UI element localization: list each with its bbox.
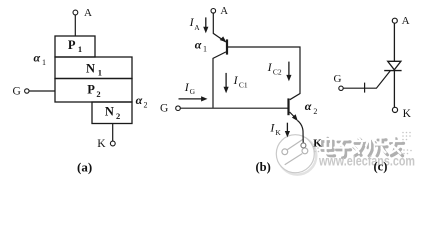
- wire G to thyristor gate: [343, 71, 390, 88]
- svg-text:A: A: [220, 6, 228, 17]
- svg-text:α: α: [34, 51, 41, 65]
- terminal A (a): [73, 7, 92, 19]
- transistor Q2 base bar: [287, 98, 289, 115]
- terminal A (b): [211, 6, 228, 17]
- transistor Q1 base bar: [226, 39, 228, 54]
- svg-text:K: K: [97, 138, 106, 150]
- svg-text:α: α: [136, 93, 143, 107]
- wire thyristor to K: [393, 71, 395, 108]
- layer P2: [55, 79, 132, 103]
- watermark logo link lines: [285, 139, 303, 164]
- watermark text dianzifashaoyou: [320, 136, 402, 156]
- svg-text:A: A: [402, 15, 410, 27]
- wire G to Q2 base: [180, 107, 288, 109]
- svg-text:P: P: [68, 38, 76, 52]
- svg-text:www.elecfans.com: www.elecfans.com: [318, 154, 415, 169]
- svg-text:A: A: [194, 23, 200, 32]
- watermark logo circle: [276, 135, 314, 173]
- terminal K (c): [392, 107, 411, 120]
- terminal G (c): [334, 73, 344, 91]
- svg-text:N: N: [105, 105, 114, 119]
- wire N2 to K: [112, 124, 114, 142]
- wire Q1 collector to junction: [213, 52, 226, 108]
- terminal G (a): [13, 85, 29, 97]
- label IC1: [224, 73, 248, 93]
- svg-text:2: 2: [96, 89, 100, 99]
- caption (b): [256, 160, 271, 174]
- label alpha1 (b): [195, 38, 207, 54]
- svg-text:2: 2: [116, 111, 120, 121]
- svg-text:1: 1: [78, 44, 82, 54]
- svg-text:A: A: [84, 7, 92, 19]
- svg-text:α: α: [195, 38, 202, 52]
- label IG: [179, 80, 208, 102]
- label IA: [189, 15, 209, 33]
- svg-text:I: I: [233, 73, 239, 87]
- label alpha1 (a): [34, 51, 47, 68]
- svg-text:G: G: [160, 103, 168, 115]
- layer N2: [92, 102, 132, 124]
- svg-text:K: K: [403, 108, 412, 120]
- terminal K (a): [97, 138, 115, 150]
- svg-text:K: K: [313, 138, 322, 150]
- svg-text:G: G: [190, 87, 196, 96]
- watermark text dianzifashaoyou shadow: [322, 138, 404, 158]
- watermark url www.elecfans.com: [318, 154, 415, 169]
- svg-text:1: 1: [42, 58, 46, 67]
- watermark logo circle shadow: [278, 137, 316, 175]
- wire A to thyristor: [393, 23, 395, 61]
- svg-text:K: K: [275, 128, 281, 137]
- thyristor triangle: [388, 61, 401, 70]
- svg-text:α: α: [305, 99, 312, 113]
- svg-text:G: G: [13, 85, 21, 97]
- thyristor cathode bar: [384, 70, 401, 72]
- watermark logo node left: [282, 149, 288, 155]
- label IC2: [267, 60, 292, 81]
- caption (c): [374, 160, 388, 174]
- wire A to Q1 emitter: [213, 13, 226, 42]
- svg-text:N: N: [86, 61, 95, 75]
- watermark halftone dots upper right: [402, 132, 412, 155]
- svg-text:2: 2: [313, 107, 317, 116]
- svg-text:C1: C1: [239, 80, 248, 89]
- terminal G (b): [160, 103, 180, 115]
- wire A to P1 layer: [74, 15, 76, 36]
- watermark halftone dots right of K: [314, 140, 323, 153]
- svg-text:C2: C2: [273, 68, 282, 77]
- terminal A (c): [392, 15, 409, 27]
- caption (a): [77, 160, 92, 175]
- label alpha2 (b): [305, 99, 318, 116]
- layer N1: [55, 57, 132, 79]
- svg-text:G: G: [334, 73, 342, 85]
- label IK: [269, 120, 290, 137]
- svg-text:P: P: [87, 83, 95, 97]
- gate tick mark: [364, 83, 366, 93]
- layer P1: [55, 36, 95, 57]
- svg-text:1: 1: [98, 68, 102, 78]
- label alpha2 (a): [136, 93, 148, 110]
- terminal K (b): [301, 138, 322, 150]
- wire G to P2 layer: [29, 90, 55, 92]
- wire Q1 base to IC2 branch: [228, 47, 300, 100]
- svg-text:(b): (b): [256, 160, 271, 174]
- wire Q2 emitter to K: [290, 112, 304, 143]
- svg-text:(a): (a): [77, 160, 92, 175]
- svg-text:I: I: [267, 60, 273, 74]
- watermark logo node right: [302, 148, 308, 154]
- svg-text:2: 2: [144, 101, 148, 110]
- svg-text:(c): (c): [374, 160, 388, 174]
- svg-text:1: 1: [203, 45, 207, 54]
